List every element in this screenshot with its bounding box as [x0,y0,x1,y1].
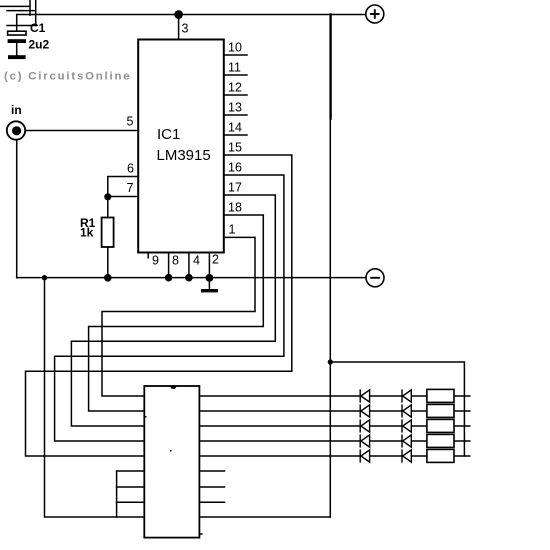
display cathode bus ladder vertical [116,471,118,517]
diode D1 row2 [360,404,369,417]
node LED supply junction dot [328,359,333,364]
svg-text:13: 13 [228,101,242,115]
diode D1 row1 [360,389,369,402]
display module DIP box [144,386,199,538]
diode D2 row2 [402,404,411,417]
svg-text:11: 11 [228,61,241,75]
svg-text:4: 4 [193,254,200,268]
svg-text:18: 18 [228,201,242,215]
resistor row5 [427,449,454,462]
wire 0V vertical left [45,278,145,517]
ground bar under C1 [8,55,26,59]
node pin 8 junction dot [165,274,173,282]
wire top-left cut fragment H4 [7,25,36,27]
input connector "in" [7,121,25,139]
svg-text:16: 16 [228,161,242,175]
display bottom-right pin tick [199,533,201,535]
diodes and resistors per row [360,389,454,462]
wire top-left cut fragment V2 [35,0,37,26]
svg-text:2: 2 [212,253,219,267]
node pins 6-7 junction dot [104,193,111,200]
svg-text:12: 12 [228,81,242,95]
svg-text:14: 14 [228,121,242,135]
diode D2 row5 [402,449,411,462]
wire pin 16 to LED row 4 [55,175,284,441]
wire 0V drop to display bottom [42,275,47,280]
diode D2 row4 [402,434,411,447]
wire display bottom right to +V vertical [199,516,330,518]
svg-text:8: 8 [172,254,179,268]
resistor row2 [427,404,454,417]
display right pin stub c [199,501,224,503]
wire pin 11 stub [224,74,247,76]
wire pin 2 to ground [208,278,210,289]
wire pin 8 [168,253,170,278]
wire in down to bottom rail [16,140,18,278]
svg-text:5: 5 [127,115,134,129]
wire pin 4 [188,253,190,278]
wire LED row 3 [199,425,469,427]
wire C1 to ground [16,43,18,55]
svg-text:2u2: 2u2 [29,38,50,52]
svg-text:(c) CircuitsOnline: (c) CircuitsOnline [4,71,131,83]
wire +V right vertical down to display [329,362,331,517]
wire LED row 4 [199,440,469,442]
display right pin stub b [199,486,224,488]
wire junction to R1 [107,197,109,218]
wire pin 12 stub [224,94,247,96]
wire pin 15 to LED row 5 [26,155,292,456]
wire top-left cut fragment V1 [29,0,31,15]
node pin3 junction dot [175,11,182,18]
wire LED resistor rail top [330,362,464,456]
svg-text:15: 15 [228,141,242,155]
wire pin 6 [108,177,138,197]
svg-text:17: 17 [228,181,242,195]
svg-text:LM3915: LM3915 [157,147,211,164]
wire pin 3 drop to IC [178,15,180,40]
terminal + supply [366,5,384,23]
wire pin 13 stub [224,114,247,116]
wire LED row 1 [199,395,469,397]
svg-text:in: in [11,103,22,117]
diode D2 row1 [402,389,411,402]
capacitor C1 plate + (hollow) [8,31,26,35]
wire pin 1 to LED row 1 [102,237,255,396]
op IC1 LM3915 box [138,40,224,253]
display speck 2 [170,450,172,452]
svg-text:7: 7 [127,181,134,195]
svg-text:9: 9 [152,254,159,268]
svg-text:6: 6 [127,162,134,176]
svg-text:C1: C1 [30,21,46,35]
resistor R1 [102,218,114,248]
display notch [170,387,177,389]
wire bottom 0V rail [17,277,366,279]
wire +V top rail [17,15,366,32]
wire LED row 5 [199,455,469,457]
svg-text:3: 3 [182,22,189,36]
display left pin stub b [117,486,145,488]
wire top-left cut fragment H2 [7,10,36,12]
wire in to pin 5 [25,130,138,132]
wire pin 17 to LED row 3 [71,195,275,426]
node pin 4 junction dot [185,274,193,282]
display left pin stub a [117,470,145,472]
wire pin 9 stub [147,253,149,258]
wire pin 18 to LED row 2 [89,215,264,411]
wire pin 2 [208,253,210,278]
svg-text:10: 10 [228,41,242,55]
diode D1 row3 [360,419,369,432]
wire R1 to bottom rail [107,247,109,278]
resistor row3 [427,419,454,432]
capacitor C1 plate - (solid) [8,39,26,43]
wire +V right vertical thick segment [329,15,331,119]
node R1 bottom junction dot [104,274,112,282]
terminal - supply [366,269,384,287]
svg-text:IC1: IC1 [157,126,180,143]
svg-text:1: 1 [229,223,236,237]
resistor row4 [427,434,454,447]
resistor row1 [427,389,454,402]
display right pin stub a [199,470,224,472]
wire pin 14 stub [224,134,247,136]
wire +V right vertical to LED rail junction [329,119,331,363]
wire pin 7 [108,196,138,198]
diode D1 row5 [360,449,369,462]
wire LED row 2 [199,410,469,412]
node pin 2 junction dot [206,274,214,282]
svg-text:1k: 1k [80,226,94,240]
wire pin 10 stub [224,54,247,56]
display left pin stub c [117,501,145,503]
display speck 1 [145,416,147,418]
diode D2 row3 [402,419,411,432]
ground bar at pin 2 [201,289,218,292]
wire top-left cut fragment H1 [0,5,30,7]
diode D1 row4 [360,434,369,447]
